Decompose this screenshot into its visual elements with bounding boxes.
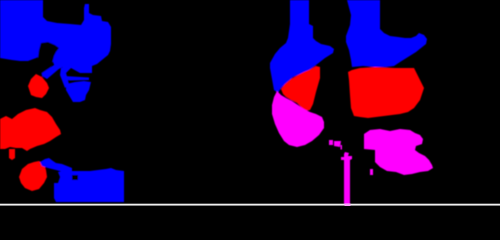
tiny magenta dash near line	[370, 169, 373, 175]
magenta line crossing grey line	[345, 204, 351, 206]
right figure 1: tiny magenta dash C	[341, 145, 343, 150]
left figure: black slit inside bottom blue rectangle	[72, 175, 78, 180]
right figure 1: magenta lower blob	[272, 91, 324, 147]
magenta line bottom tip crossing grey line	[345, 204, 351, 206]
right figure 2: magenta band	[364, 129, 433, 175]
left figure: small round red blob bottom-left	[19, 161, 47, 191]
left figure: big bottom blue rectangle	[54, 168, 124, 202]
left figure: blue arm going down-left from tongue	[42, 65, 60, 79]
left figure: big blue mask upper-left	[0, 0, 111, 73]
bottom light grey separator line	[0, 204, 500, 205]
right figure 1: tiny magenta chip A	[329, 140, 333, 145]
left figure: thin blue strip	[64, 76, 89, 81]
magenta vertical line with top splat	[341, 152, 352, 206]
left figure: lower blue trapezoid blob	[66, 81, 91, 102]
right figure 1: bent blue column	[270, 0, 334, 93]
right figure 2: big red wedge	[348, 67, 424, 118]
bottom fade row	[0, 205, 500, 206]
left figure: red tail below large red blob	[9, 149, 15, 160]
right figure 1: red torso blob	[281, 66, 320, 111]
right figure 1: tiny magenta chip B	[334, 141, 341, 147]
left figure: red diamond blob	[28, 74, 49, 98]
right figure 2: blue L column with foot	[346, 0, 427, 67]
left figure: large red blob	[0, 108, 61, 151]
left figure: black funnel notch inside blue	[37, 42, 59, 75]
left figure: blue arm going down-right to lower blob	[60, 67, 69, 88]
left figure: blue cap band above bottom rectangle	[40, 158, 72, 172]
